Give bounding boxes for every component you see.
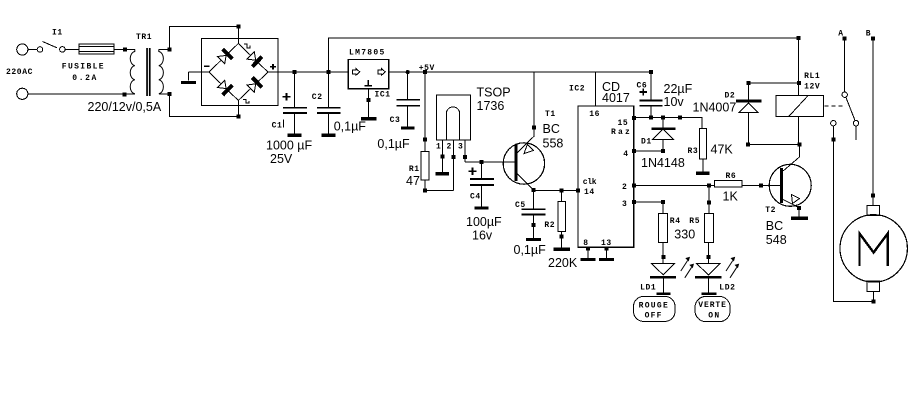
svg-text:14: 14: [584, 188, 595, 197]
svg-text:T2: T2: [765, 206, 776, 215]
svg-text:BC: BC: [766, 219, 783, 233]
svg-text:47K: 47K: [711, 143, 734, 157]
svg-text:D2: D2: [725, 92, 736, 101]
svg-text:LD2: LD2: [719, 284, 735, 293]
svg-text:LM7805: LM7805: [349, 49, 386, 58]
svg-text:IC2: IC2: [569, 85, 585, 94]
svg-text:100µF: 100µF: [466, 215, 502, 229]
svg-text:13: 13: [601, 239, 612, 248]
svg-text:16v: 16v: [472, 229, 493, 243]
svg-text:C5: C5: [515, 201, 526, 210]
svg-text:2: 2: [447, 142, 452, 151]
svg-text:R3: R3: [688, 147, 699, 156]
svg-text:15: 15: [618, 119, 629, 128]
svg-text:220K: 220K: [548, 256, 578, 270]
svg-text:2: 2: [622, 183, 627, 192]
svg-text:R5: R5: [689, 217, 700, 226]
svg-text:558: 558: [543, 137, 564, 151]
svg-text:TSOP: TSOP: [477, 85, 511, 99]
svg-text:3: 3: [622, 200, 627, 209]
svg-text:1N4007: 1N4007: [693, 101, 737, 115]
svg-text:0.2A: 0.2A: [72, 74, 98, 83]
svg-text:C1: C1: [272, 122, 283, 131]
svg-text:OFF: OFF: [645, 312, 663, 321]
svg-text:R2: R2: [544, 221, 555, 230]
svg-text:A: A: [838, 30, 843, 39]
svg-text:TR1: TR1: [136, 33, 152, 42]
svg-text:ROUGE: ROUGE: [639, 302, 670, 311]
svg-text:10v: 10v: [664, 95, 685, 109]
svg-text:clk: clk: [583, 178, 597, 187]
svg-text:D1: D1: [641, 138, 652, 147]
svg-text:T1: T1: [545, 110, 556, 119]
svg-text:22µF: 22µF: [664, 82, 693, 96]
svg-text:1736: 1736: [477, 99, 505, 113]
svg-text:ON: ON: [708, 311, 720, 320]
svg-text:0,1µF: 0,1µF: [514, 243, 547, 257]
svg-text:47: 47: [406, 174, 420, 188]
svg-text:0,1µF: 0,1µF: [377, 137, 410, 151]
svg-text:12V: 12V: [804, 83, 820, 92]
svg-text:RL1: RL1: [804, 72, 820, 81]
svg-text:FUSIBLE: FUSIBLE: [62, 63, 105, 72]
svg-text:1N4148: 1N4148: [641, 156, 685, 170]
svg-text:548: 548: [766, 233, 787, 247]
svg-text:4: 4: [623, 150, 628, 159]
svg-text:1: 1: [436, 142, 441, 151]
svg-text:C6: C6: [637, 82, 648, 91]
svg-text:16: 16: [589, 110, 600, 119]
svg-text:+5V: +5V: [419, 64, 435, 73]
svg-text:IC1: IC1: [375, 91, 391, 100]
svg-text:8: 8: [583, 239, 588, 248]
svg-text:C2: C2: [312, 93, 323, 102]
svg-text:0,1µF: 0,1µF: [334, 120, 367, 134]
svg-text:Raz: Raz: [611, 128, 632, 137]
svg-text:C4: C4: [470, 193, 481, 202]
svg-text:R1: R1: [409, 165, 420, 174]
svg-text:C3: C3: [390, 116, 401, 125]
svg-text:1K: 1K: [723, 190, 739, 204]
svg-text:1000 µF: 1000 µF: [266, 139, 312, 153]
svg-text:R4: R4: [670, 217, 681, 226]
svg-text:330: 330: [674, 228, 695, 242]
svg-text:3: 3: [458, 142, 463, 151]
svg-text:I1: I1: [52, 29, 63, 38]
svg-text:LD1: LD1: [640, 284, 656, 293]
svg-text:VERTE: VERTE: [698, 301, 727, 310]
svg-text:220AC: 220AC: [6, 68, 33, 77]
svg-text:B: B: [866, 30, 871, 39]
svg-text:R6: R6: [726, 172, 737, 181]
svg-text:4017: 4017: [602, 91, 630, 105]
svg-text:220/12v/0,5A: 220/12v/0,5A: [88, 100, 162, 114]
svg-text:25V: 25V: [270, 152, 293, 166]
svg-text:BC: BC: [543, 122, 560, 136]
